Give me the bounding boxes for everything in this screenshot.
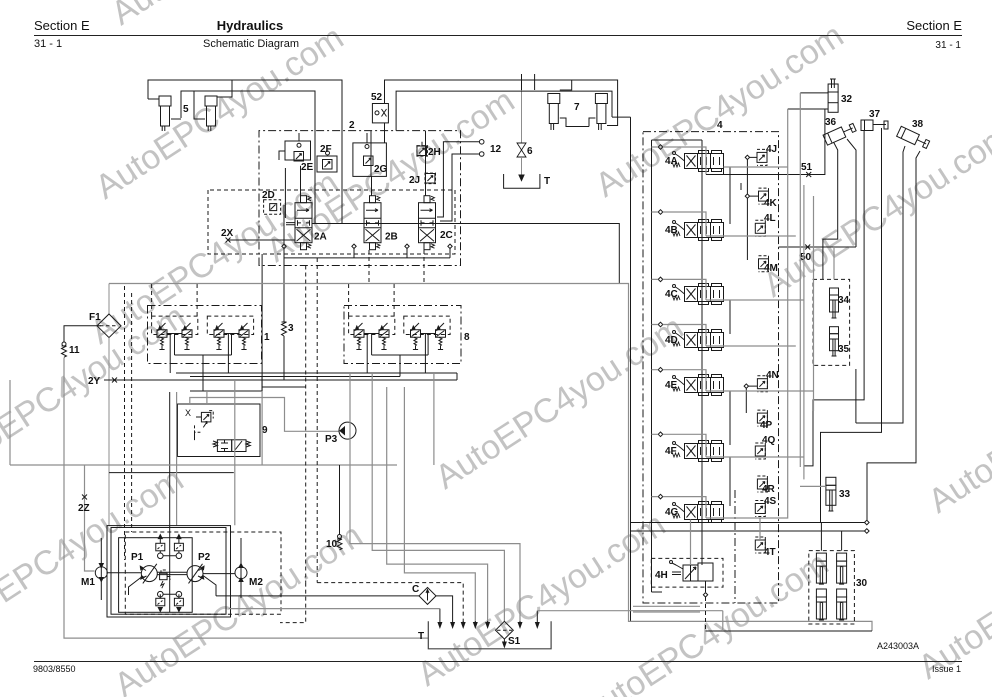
svg-text:7: 7 <box>574 102 580 113</box>
spools 4A-4G <box>673 151 724 172</box>
svg-text:9: 9 <box>262 425 268 436</box>
svg-text:4G: 4G <box>665 507 679 518</box>
cylinders 30 <box>816 553 846 620</box>
svg-text:2Z: 2Z <box>78 503 90 514</box>
bank8 relief valves <box>354 323 364 350</box>
wire 51 <box>706 109 825 175</box>
cylinder 5a <box>148 96 181 131</box>
cylinder 35 <box>830 327 839 356</box>
svg-text:AutoEPC4you.com: AutoEPC4you.com <box>922 332 992 520</box>
motor bottom pilot pair <box>156 591 184 611</box>
dashed verticals left pair <box>125 286 132 560</box>
svg-text:S1: S1 <box>508 636 521 647</box>
center pilot valve <box>160 570 170 588</box>
spool 2B <box>364 196 381 250</box>
svg-text:M2: M2 <box>249 577 263 588</box>
motor shaft lines <box>157 572 187 574</box>
svg-text:2G: 2G <box>374 164 388 175</box>
svg-text:T: T <box>418 631 424 642</box>
svg-text:3: 3 <box>288 323 294 334</box>
cylinder 5b <box>194 80 232 131</box>
dashed elbow to tank <box>280 583 463 626</box>
svg-text:51: 51 <box>801 162 813 173</box>
svg-text:4P: 4P <box>760 420 773 431</box>
bank4 inner dashdot <box>734 490 736 603</box>
tank T top <box>504 174 540 188</box>
svg-text:2X: 2X <box>221 228 234 239</box>
svg-text:10: 10 <box>326 539 338 550</box>
dashed verticals center pair <box>306 258 318 583</box>
pipe to P3 <box>190 398 340 432</box>
gray right-side verticals <box>760 109 788 518</box>
ram 38 <box>897 126 931 149</box>
wire M2 to C <box>216 595 419 597</box>
svg-text:X: X <box>185 408 191 418</box>
valve 6 <box>517 90 526 181</box>
spool 2C <box>419 196 436 250</box>
svg-text:2D: 2D <box>262 190 275 201</box>
svg-text:12: 12 <box>490 144 502 155</box>
svg-text:35: 35 <box>838 344 850 355</box>
svg-text:4K: 4K <box>764 198 778 209</box>
wire bridge ticks <box>522 74 535 90</box>
svg-text:4R: 4R <box>762 484 776 495</box>
svg-text:2Y: 2Y <box>88 376 101 387</box>
wire 2C to trunk <box>312 224 619 284</box>
cylinder 7b <box>589 94 607 131</box>
svg-text:C: C <box>412 584 419 595</box>
gray bottom nest right <box>633 606 700 612</box>
svg-text:4J: 4J <box>766 144 777 155</box>
wire 2Y <box>104 379 457 381</box>
pilot circles <box>744 155 758 413</box>
svg-text:AutoEPC4you.com: AutoEPC4you.com <box>912 498 992 686</box>
svg-text:2A: 2A <box>314 232 327 243</box>
op pilot box 2E <box>279 141 311 161</box>
wire top line A <box>148 80 342 202</box>
box 9 <box>178 404 261 457</box>
spool 2A <box>295 196 312 250</box>
pilot 2D dashed <box>264 200 281 215</box>
spring 3 <box>282 252 287 380</box>
svg-text:4B: 4B <box>665 225 678 236</box>
pilot dashes above banks <box>152 284 395 317</box>
spool labels <box>665 156 679 518</box>
svg-text:4S: 4S <box>764 496 777 507</box>
filter C <box>419 587 453 621</box>
svg-text:4C: 4C <box>665 289 678 300</box>
wire 50 <box>779 246 857 248</box>
cylinders 30 dashed box <box>809 551 855 624</box>
tank inlet arrows <box>438 609 539 628</box>
trunk gray main <box>109 284 872 632</box>
svg-text:8: 8 <box>464 332 470 343</box>
svg-text:T: T <box>544 176 550 187</box>
line into tank from left <box>229 608 440 610</box>
svg-text:34: 34 <box>838 295 850 306</box>
svg-text:4H: 4H <box>655 570 668 581</box>
wire to bank4 top <box>612 117 631 621</box>
gray verticals to elbows <box>350 373 520 626</box>
svg-text:4Q: 4Q <box>762 435 776 446</box>
block 2 dash-dot box <box>259 131 461 266</box>
svg-text:11: 11 <box>69 345 80 356</box>
pump P3 <box>339 422 356 439</box>
svg-text:2E: 2E <box>301 162 314 173</box>
dashed box 4H <box>651 558 723 587</box>
motor top pilot pair <box>156 535 184 559</box>
spring 10 <box>337 465 342 550</box>
trunk gray mid <box>10 464 397 466</box>
supply port diamonds <box>658 145 663 499</box>
gray bottom trunk2 <box>85 465 95 571</box>
filter F1 <box>97 284 121 526</box>
footer <box>34 661 962 662</box>
svg-text:32: 32 <box>841 94 853 105</box>
ram 37 <box>861 120 888 131</box>
drain line with diamonds <box>262 205 452 391</box>
motor dashed box <box>125 532 281 614</box>
cylinder 32 <box>788 79 838 112</box>
svg-text:2H: 2H <box>428 147 441 158</box>
svg-text:M1: M1 <box>81 577 95 588</box>
pump P2 <box>187 564 204 584</box>
svg-text:4T: 4T <box>764 547 776 558</box>
svg-text:4N: 4N <box>766 370 779 381</box>
svg-text:2B: 2B <box>385 232 398 243</box>
pump P1 <box>140 564 157 584</box>
motor M1 <box>95 538 107 600</box>
svg-text:33: 33 <box>839 489 851 500</box>
svg-text:4A: 4A <box>665 156 678 167</box>
pilot labels <box>760 144 779 558</box>
svg-text:4L: 4L <box>764 213 776 224</box>
tank bottom <box>428 621 551 649</box>
svg-text:P2: P2 <box>198 552 211 563</box>
svg-text:5: 5 <box>183 104 189 115</box>
svg-text:52: 52 <box>371 92 383 103</box>
cylinder 34 <box>830 288 839 318</box>
pilot box 2G <box>353 143 387 177</box>
valve 4H <box>670 561 714 582</box>
svg-text:38: 38 <box>912 119 924 130</box>
header <box>34 18 90 33</box>
svg-text:30: 30 <box>856 578 868 589</box>
svg-text:4E: 4E <box>665 380 678 391</box>
svg-text:AutoEPC4you.com: AutoEPC4you.com <box>757 116 992 304</box>
svg-text:P1: P1 <box>131 552 144 563</box>
port lines bottom right <box>631 520 870 533</box>
cylinder 33 <box>800 477 836 511</box>
svg-text:1: 1 <box>264 332 270 343</box>
svg-text:37: 37 <box>869 109 881 120</box>
wire top line B <box>181 91 315 224</box>
pilot 2H <box>417 146 428 157</box>
bank 1 box <box>148 306 262 364</box>
wire 2X <box>228 239 295 241</box>
gray bank4 connectors <box>724 166 788 168</box>
ram 36 <box>823 122 857 145</box>
svg-text:6: 6 <box>527 146 533 157</box>
port 12 circles <box>422 140 484 222</box>
wire 2Z <box>82 495 87 500</box>
svg-text:2: 2 <box>349 120 355 131</box>
pilot 2F <box>317 151 337 172</box>
pilot valves 4J-4T <box>757 149 767 165</box>
svg-text:F1: F1 <box>89 312 101 323</box>
svg-text:2F: 2F <box>320 144 332 155</box>
strainer S1 <box>496 621 514 647</box>
spring 11 <box>62 326 429 638</box>
motor block outer box <box>107 526 231 617</box>
gray long verticals left <box>176 392 178 525</box>
cylinder 7a <box>548 80 589 130</box>
wire top line C <box>385 80 618 126</box>
svg-text:2J: 2J <box>409 175 420 186</box>
motor inner box <box>119 538 193 613</box>
svg-text:4M: 4M <box>764 263 778 274</box>
motor M2 <box>235 538 247 598</box>
svg-text:36: 36 <box>825 117 837 128</box>
bank4 supply rails <box>652 140 703 592</box>
svg-text:50: 50 <box>800 252 812 263</box>
svg-text:4F: 4F <box>665 446 677 457</box>
bank underside wires <box>175 334 232 392</box>
svg-text:AutoEPC4you.com: AutoEPC4you.com <box>0 460 190 648</box>
bank1 relief valves <box>157 323 167 350</box>
wires pilot area <box>285 131 425 224</box>
4H drain <box>705 581 707 592</box>
bank 8 box <box>344 306 461 364</box>
dashed box around spools <box>208 190 455 254</box>
cyl 34/35 dashed box <box>813 279 850 365</box>
pilot 2J <box>425 173 436 184</box>
wires 30 to ports <box>821 523 841 551</box>
svg-text:4D: 4D <box>665 335 678 346</box>
bank4 internal verticals <box>729 167 731 506</box>
svg-text:P3: P3 <box>325 434 338 445</box>
bank4 dash-dot box <box>643 132 779 603</box>
svg-text:4: 4 <box>717 120 723 131</box>
valve 52 <box>372 104 388 143</box>
svg-text:2C: 2C <box>440 230 453 241</box>
